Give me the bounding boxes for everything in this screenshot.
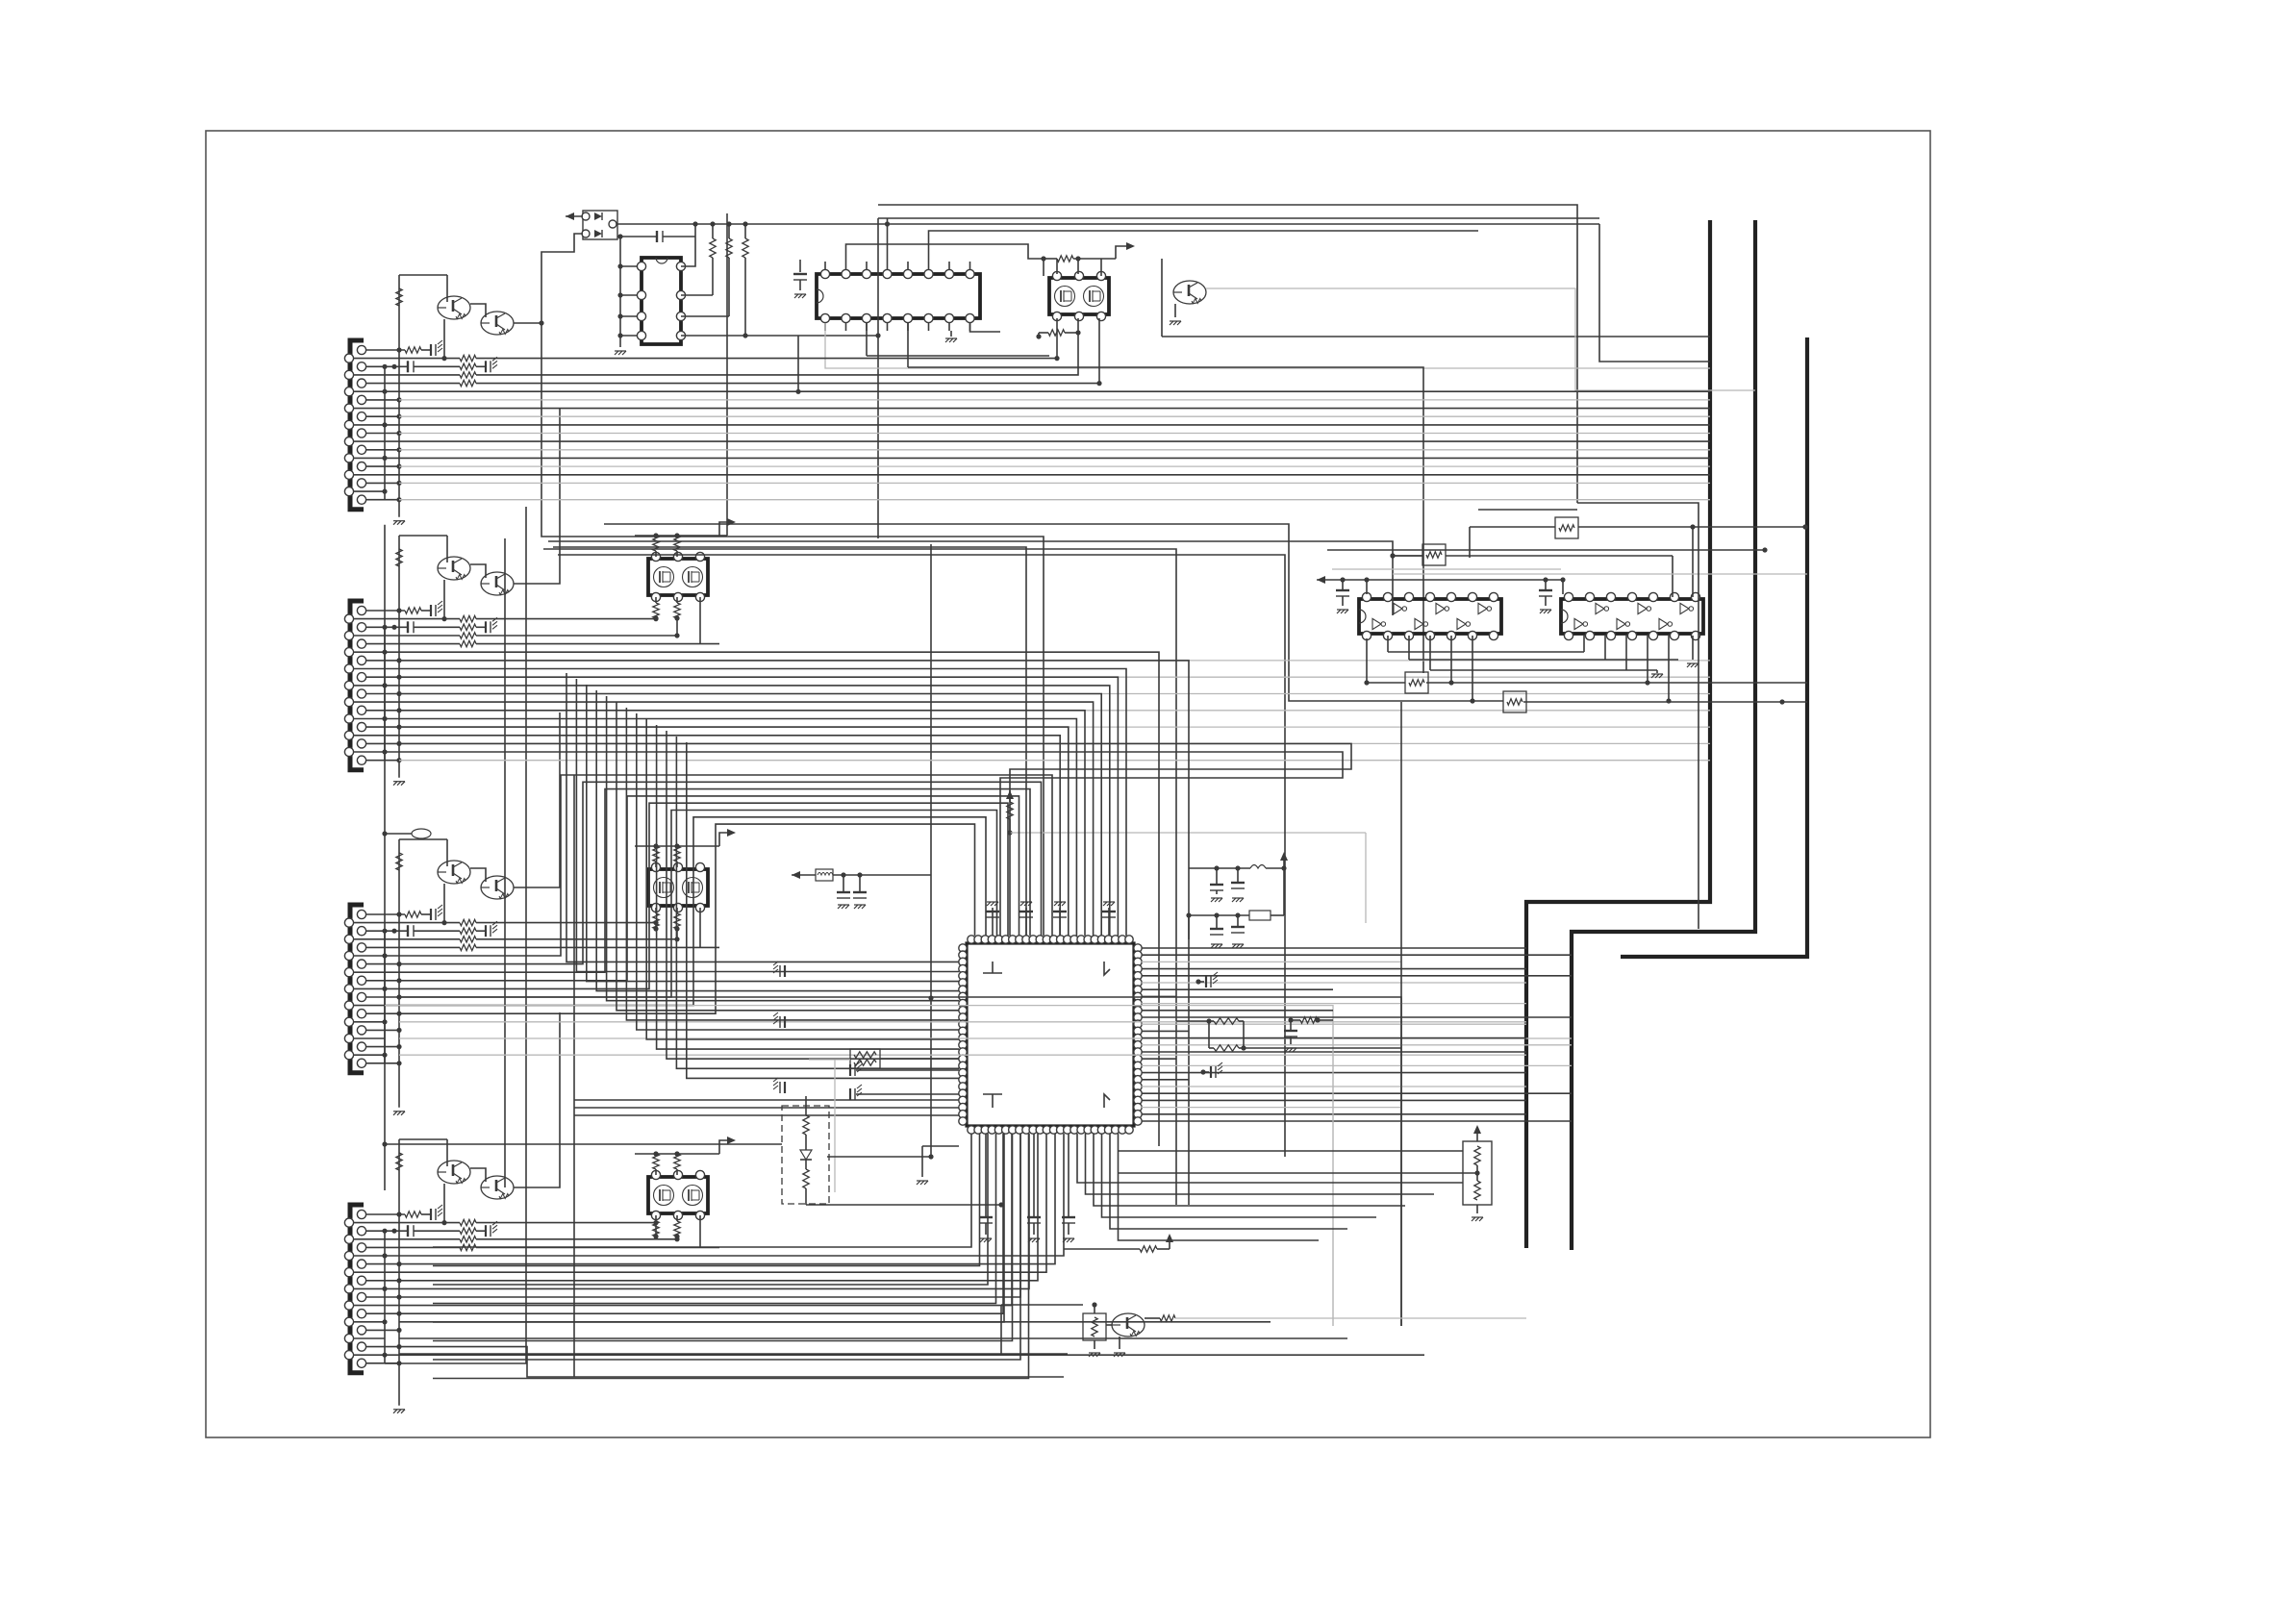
- U5 cap C41: [1539, 577, 1552, 613]
- Q10 top resistor R14: [1041, 256, 1116, 276]
- Q30 top resistors: [635, 829, 736, 867]
- mosfet pair Q40 (box): [648, 1170, 708, 1219]
- wire y563 RB2 feed: [548, 541, 1422, 559]
- gray wire from U3: [825, 323, 1710, 368]
- buffer U4: [1359, 592, 1501, 639]
- Q10 bottom resistor R15: [1036, 318, 1080, 339]
- transistor Q11: [1170, 281, 1206, 325]
- CN4 long steps: [385, 1354, 1068, 1363]
- microcontroller U1 (QFP64): [959, 936, 1142, 1134]
- resistor box RB2: [1422, 544, 1446, 565]
- wire CN1 row2 to Q10: [476, 356, 1060, 361]
- wire CN3 row12: [385, 1006, 1333, 1326]
- RB3 wire: [1364, 638, 1807, 686]
- Q10 arrow out: [1116, 242, 1135, 259]
- wire to PC1 anode: [566, 212, 583, 220]
- U2 right pin wires: [681, 224, 881, 394]
- rail x525: [504, 538, 506, 1187]
- wire y572: [1327, 547, 1768, 552]
- Q40 wires to CN4: [476, 1215, 719, 1247]
- bus line B3: [1621, 337, 1807, 957]
- wire y592 y597: [1332, 569, 1807, 574]
- input filter network CN1 (R/C + Q1a Q1b): [354, 275, 541, 525]
- pull-up R20: [1006, 790, 1366, 923]
- jumper J1: [382, 829, 431, 838]
- rail x1457: [1400, 702, 1402, 1326]
- connector CN2: [344, 601, 365, 770]
- divider RV1: [1118, 1125, 1492, 1221]
- connector CN1: [344, 340, 365, 510]
- cap-gnd pair left of U1: [850, 1061, 959, 1100]
- decoupling caps above U1: [986, 902, 1116, 936]
- resistor box RB4: [1503, 691, 1526, 712]
- mosfet pair Q10 (box): [1049, 271, 1109, 320]
- resistor box RB1: [1555, 517, 1578, 538]
- Q30 wires to CN3: [476, 908, 719, 947]
- buffer U5: [1561, 592, 1703, 639]
- rail x400 down: [384, 525, 386, 1190]
- resistor R40 with VCC arrow: [1064, 1234, 1173, 1252]
- connector CN3: [344, 905, 365, 1073]
- rail x547: [525, 507, 527, 1363]
- Q40 top resistors: [635, 1137, 736, 1175]
- U3 decoupling cap C11: [793, 260, 807, 298]
- transistor Q40: [1112, 1313, 1145, 1337]
- gnd below U1: [917, 1146, 959, 1185]
- RB4 wire: [1523, 699, 1807, 704]
- mosfet pair Q20 (box): [648, 552, 708, 601]
- CN2 to QFP bundle: [385, 652, 1351, 1205]
- resistor pair box RP2: [809, 1049, 959, 1192]
- CN1 signal bus: [399, 400, 1710, 500]
- wire top rail drop right: [1599, 224, 1710, 362]
- resistor pair R31/R32: [1176, 1018, 1401, 1051]
- op-amp U2 (DIP8): [637, 258, 685, 344]
- Q20 top resistors: [635, 518, 736, 557]
- CN3 gray bus: [399, 1022, 1572, 1055]
- resistor R11: [710, 224, 716, 295]
- wire y530: [1478, 509, 1577, 511]
- wire y571: [543, 549, 1176, 1205]
- node VCC top rail: [617, 221, 1599, 226]
- wire y1190: [382, 1141, 782, 1146]
- wire y350 to bus: [1162, 259, 1710, 337]
- resistor R13: [742, 224, 748, 336]
- QFP bottom staircase left: [433, 1134, 1029, 1379]
- wire CN1 row5: [476, 381, 1102, 386]
- RB1 wire: [1470, 524, 1808, 597]
- mosfet pair Q30 (box): [648, 862, 708, 912]
- QFP right pin wires: [1142, 948, 1572, 1121]
- wire CN3 row11: [399, 997, 1401, 1326]
- CN4 to QFP bottom bundle: [385, 1134, 1064, 1313]
- wire y569: [553, 547, 1026, 936]
- U2 left rail: [615, 237, 637, 355]
- wire y370: [867, 355, 1049, 357]
- cap-gnd markers x816: [773, 962, 785, 1093]
- wire top y213: [878, 205, 1577, 503]
- wire y545 RB4 feed: [604, 524, 1503, 701]
- capacitor C10: [617, 231, 695, 242]
- bus line B2: [1572, 220, 1755, 1250]
- Q40 wiring: [1001, 1302, 1526, 1357]
- input filter network CN4 (R/C + Q4a Q4b): [354, 1012, 560, 1413]
- cap C30 to gnd: [1195, 972, 1218, 987]
- wire y523: [1577, 503, 1699, 929]
- hline y1203: [827, 1156, 931, 1158]
- Q20 wires to CN2: [476, 597, 719, 644]
- U4 cap C40: [1336, 577, 1349, 613]
- U5 gnd: [1687, 636, 1699, 667]
- resistor R12: [726, 224, 732, 316]
- cap C31 to gnd: [1200, 1062, 1222, 1078]
- LC filter top row: [1189, 852, 1288, 902]
- Q40 bottom resistors: [653, 1215, 680, 1239]
- Q30 bottom resistors: [653, 908, 680, 932]
- buffer rail y603: [1317, 576, 1566, 594]
- input filter network CN3 (R/C + Q3a Q3b): [354, 712, 560, 1115]
- Q10 pin wires: [1057, 259, 1101, 383]
- driver IC U3 (DIP16): [817, 262, 980, 331]
- RB2 wire: [1390, 553, 1673, 615]
- caps below U1: [979, 1134, 1075, 1242]
- resistor box R41: [1083, 1313, 1106, 1340]
- input filter network CN2 (R/C + Q2a Q2b): [354, 409, 560, 786]
- wire y577: [558, 555, 1285, 1157]
- ferrite bead FB1: [792, 869, 931, 909]
- protection network D1 (dashed box): [782, 1096, 1004, 1208]
- wire U3 pins to rail: [846, 218, 1479, 367]
- LC filter second row: [1186, 868, 1284, 948]
- CN2 signal bus: [399, 661, 1710, 761]
- connector CN4: [344, 1205, 365, 1373]
- CN4 long bus: [399, 1322, 1424, 1355]
- border frame: [206, 131, 1930, 1437]
- CN4 bottom steps: [385, 1347, 1064, 1377]
- rail x597: [573, 775, 575, 1377]
- QFP bottom right fan: [1077, 1134, 1463, 1240]
- RC to gnd R33/C32: [1284, 1017, 1333, 1052]
- wire from PC1 cathode: [539, 234, 1044, 936]
- U3 ground: [945, 331, 957, 342]
- rail x968: [928, 544, 933, 1160]
- photocoupler PC1 (diode box): [582, 211, 617, 239]
- resistor box RB3: [1405, 672, 1428, 693]
- QFP left pin wires: [566, 673, 959, 1115]
- Q11 output gray: [1206, 288, 1755, 390]
- wire y382: [908, 367, 1423, 673]
- CN3 to QFP bundle: [385, 775, 1052, 1013]
- wire feed to Q20: [719, 213, 727, 536]
- wire top y227: [878, 218, 1599, 538]
- wire CN1 row4: [476, 333, 1078, 375]
- buffer out wires: [1388, 636, 1678, 704]
- bus line B1: [1526, 220, 1710, 1248]
- CN1 dark bus: [385, 391, 1710, 475]
- rail x1386 gray: [1332, 1020, 1334, 1326]
- Q20 bottom resistors: [653, 597, 680, 621]
